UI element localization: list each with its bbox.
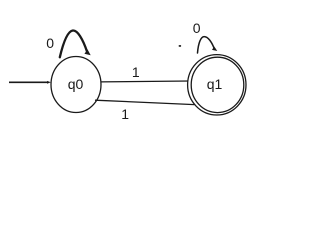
svg-text:q0: q0 <box>68 76 84 92</box>
svg-text:0: 0 <box>46 35 54 51</box>
svg-text:q1: q1 <box>207 76 223 92</box>
svg-text:1: 1 <box>132 64 140 80</box>
state q0 <box>51 57 101 113</box>
self-loop on q0 <box>60 30 91 57</box>
svg-text:1: 1 <box>121 106 129 122</box>
state q1 inner circle <box>191 57 244 112</box>
self-loop on q1 <box>198 37 218 53</box>
svg-text:0: 0 <box>193 20 201 36</box>
transition q0 to q1 bottom <box>95 100 195 104</box>
start arrow <box>9 81 51 84</box>
stray dot <box>179 45 181 47</box>
transition q0 to q1 top <box>101 80 191 83</box>
state q1 outer circle <box>188 55 246 115</box>
